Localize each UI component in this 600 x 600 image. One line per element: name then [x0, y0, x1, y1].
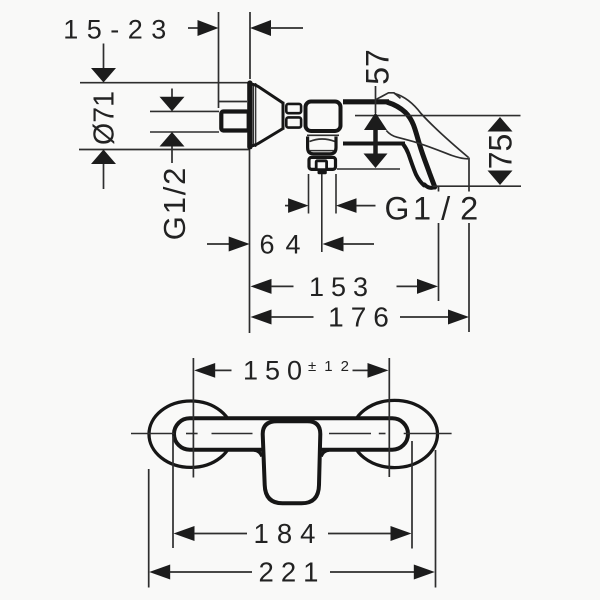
connector box lower	[286, 117, 301, 127]
G 1/2 outlet dim arrow right (points left)	[336, 198, 357, 213]
dim 15-23 arrow left (points right)	[198, 20, 219, 36]
left escutcheon circle	[149, 401, 233, 467]
dim 75 arrow up	[488, 117, 513, 132]
svg-text:153: 153	[309, 272, 375, 302]
pipe thread dim top line	[150, 110, 219, 112]
escutcheon face plate bar	[247, 80, 252, 149]
dim O71 top line	[80, 82, 250, 84]
lower housing arch	[310, 139, 336, 142]
dim O71 bottom stem	[103, 164, 105, 189]
lower housing outline	[308, 137, 336, 154]
lever top edge	[343, 99, 389, 104]
svg-text:15-23: 15-23	[63, 15, 175, 45]
dim 176 left tail	[271, 316, 314, 318]
concealed pipe line	[219, 101, 248, 103]
dim 153 arrow right	[417, 279, 438, 294]
dim O71 bottom line	[79, 149, 250, 151]
centerline right segment 2	[404, 433, 452, 435]
lever back lower line	[386, 131, 468, 159]
G 1/2 outlet dim right tail	[356, 205, 376, 207]
escutcheon cone right edge	[282, 102, 285, 130]
ext line handle rear upper	[468, 158, 470, 192]
dim 150 left tail	[215, 369, 232, 371]
pipe thread dim bottom stem	[171, 147, 173, 164]
ext line bar left end	[172, 436, 174, 548]
dim 57 stem	[373, 130, 378, 154]
dim 57 leader	[375, 86, 377, 113]
svg-text:Ø71: Ø71	[89, 91, 121, 145]
dim 150 right tail	[353, 369, 369, 371]
dim O71 arrow down	[91, 68, 116, 83]
mixer body	[306, 102, 341, 132]
svg-text:64: 64	[259, 230, 311, 260]
dim 153 left tail	[271, 285, 294, 287]
dim 153 arrow left	[251, 279, 272, 294]
lever tip	[425, 185, 435, 188]
dim 15-23 line right tail	[270, 27, 303, 29]
dim O71 top stem	[103, 44, 105, 69]
svg-text:1/2: 1/2	[413, 191, 488, 227]
dim 57 arrow down	[364, 154, 388, 169]
bar-body fillet left	[254, 450, 262, 456]
dim 150 left vline (left center axis)	[192, 358, 194, 478]
svg-text:150: 150	[243, 356, 309, 386]
dim 176 arrow right	[448, 310, 469, 325]
svg-text:G: G	[385, 191, 410, 227]
pipe thread dim top stem	[171, 89, 173, 98]
bar-body fillet right	[321, 450, 329, 456]
ext line handle front upper	[438, 186, 440, 192]
pipe thread dim bottom line	[150, 131, 219, 133]
body bar pill	[174, 418, 408, 449]
dim 184 right tail	[328, 533, 391, 535]
center cartridge body	[263, 421, 321, 503]
lever horn	[377, 93, 401, 100]
dim 64 arrow left (points right)	[229, 237, 250, 252]
ext line handle front lower	[438, 223, 440, 301]
dim 15-23 extension line left (pipe end)	[218, 12, 220, 108]
dim 57 arrow up	[364, 113, 387, 131]
lower housing top line	[307, 134, 339, 136]
dim 57 bottom ref line	[337, 168, 400, 170]
dim 75 arrow down	[488, 171, 513, 186]
svg-text:221: 221	[259, 557, 326, 588]
centerline left segment 2	[212, 433, 253, 435]
dim 221 left tail	[170, 571, 252, 573]
pipe thread dim arrow up	[160, 132, 185, 147]
svg-text:176: 176	[328, 302, 396, 333]
lever back upper line	[394, 93, 469, 157]
dim 184 left tail	[194, 533, 247, 535]
dim 64 arrow right (points left)	[323, 237, 344, 252]
dim 57 top ref line	[355, 115, 521, 117]
dim 221 right tail	[330, 571, 414, 573]
dim 64 left tail	[207, 243, 229, 245]
ext line wall face down	[249, 150, 251, 333]
outlet outer box	[309, 157, 336, 169]
escutcheon face inner line 1	[253, 83, 255, 147]
G 1/2 outlet dim arrow left (points right)	[288, 198, 309, 213]
svg-text:±12: ±12	[308, 358, 357, 375]
ext line overall right	[435, 450, 437, 588]
right escutcheon circle	[352, 400, 438, 467]
centerline left segment 1	[131, 433, 174, 435]
outlet ext line left	[308, 174, 310, 214]
dim 150 arrow left	[194, 363, 215, 378]
ext line bar right end	[411, 441, 413, 549]
dim 153 right tail	[397, 285, 418, 287]
lever inner edge	[403, 144, 424, 185]
centerline right segment 1	[329, 433, 371, 435]
dim 221 arrow left	[149, 565, 170, 580]
G 1/2 outlet dim left tail	[285, 205, 289, 207]
centerline right tick	[379, 433, 386, 435]
escutcheon cone bottom edge	[252, 129, 283, 146]
dim 176 arrow left	[251, 310, 272, 325]
outlet inner box	[316, 161, 326, 170]
lever front edge	[388, 102, 435, 187]
dim 221 arrow right	[414, 565, 435, 580]
outlet axis ext line	[321, 174, 323, 252]
pipe thread dim arrow down	[160, 97, 185, 112]
dim 184 arrow left	[174, 526, 195, 541]
outlet ext line right	[335, 174, 337, 214]
escutcheon cone top edge	[252, 84, 283, 103]
dim 176 right tail	[400, 316, 449, 318]
lever underside edge	[343, 142, 405, 146]
centerline left tick	[186, 433, 198, 435]
dim 150 right vline (right center axis)	[388, 358, 390, 477]
dim 15-23 extension line right (wall face)	[249, 12, 251, 79]
outlet tab	[318, 170, 327, 174]
dim 150 arrow right	[368, 363, 389, 378]
svg-text:57: 57	[360, 49, 396, 85]
escutcheon face inner line 2	[255, 83, 257, 147]
lower housing inner line	[310, 150, 334, 152]
dim O71 arrow up	[91, 150, 116, 165]
dim 64 right tail	[343, 243, 374, 245]
svg-text:G1/2: G1/2	[157, 166, 192, 240]
ext line handle rear lower	[468, 223, 470, 332]
dim 15-23 line left tail	[188, 27, 198, 29]
dim 184 arrow right	[391, 526, 412, 541]
svg-text:75: 75	[483, 134, 519, 170]
dim 75 bottom ref line (handle tip)	[433, 185, 522, 187]
ext line overall left	[148, 469, 150, 588]
connector box upper	[286, 104, 301, 113]
svg-text:184: 184	[254, 518, 324, 549]
dim 15-23 arrow right (points left)	[250, 20, 271, 36]
wall connection nipple	[221, 112, 248, 131]
